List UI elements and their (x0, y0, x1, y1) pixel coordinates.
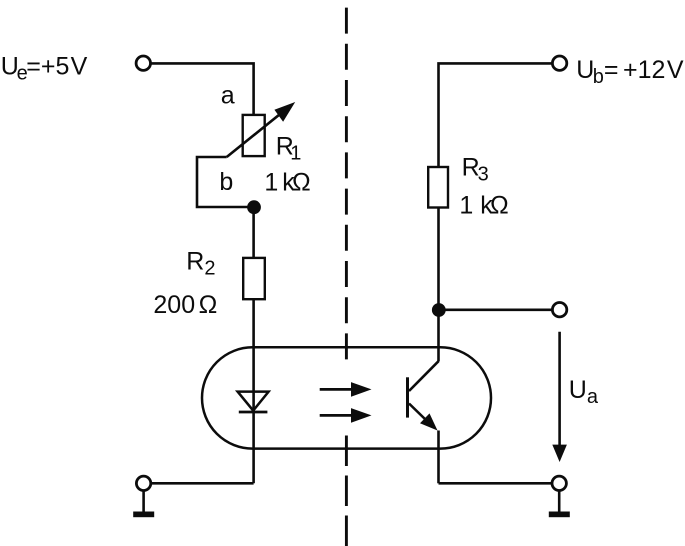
ground left (142, 490, 145, 512)
terminal Ub (552, 56, 566, 70)
wire emitter to bottom rail (437, 431, 440, 484)
svg-text:200 Ω: 200 Ω (153, 291, 217, 319)
wire Ue to R1 top (151, 63, 253, 115)
resistor R2 body (243, 258, 265, 299)
wire LED cathode to bottom rail (252, 412, 255, 483)
LED diode of optocoupler (238, 392, 269, 411)
wire junction to R2 (252, 207, 255, 258)
wire Ub to R3 (439, 63, 552, 167)
arrow Ua (558, 332, 561, 447)
bottom-right terminal (552, 476, 566, 490)
svg-text:b: b (219, 168, 233, 196)
svg-text:Ub=+12V: Ub=+12V (576, 56, 684, 88)
wire bottom-right rail (439, 482, 552, 485)
wire R3 to collector node (437, 208, 440, 362)
terminal Ue (136, 56, 150, 70)
output terminal circle (552, 303, 566, 317)
potentiometer R1 arrow (227, 113, 281, 157)
resistor R3 body (428, 167, 448, 208)
bottom-left terminal (136, 476, 150, 490)
junction node dot (collector / output) (432, 303, 446, 317)
optocoupler body (202, 347, 491, 448)
junction node dot (R1 wiper / R2) (247, 200, 261, 214)
phototransistor collector (409, 361, 439, 391)
wire R2 to LED (252, 299, 255, 412)
wire bottom-left rail (152, 482, 254, 485)
dashed isolation line (345, 8, 348, 360)
potentiometer R1 body (243, 115, 265, 156)
phototransistor emitter (409, 404, 426, 421)
wiper loop wire (b) (197, 157, 254, 207)
light coupling arrow lower (320, 414, 353, 417)
svg-text:1 kΩ: 1 kΩ (459, 192, 508, 220)
light coupling arrow upper (320, 388, 353, 391)
svg-text:a: a (221, 81, 235, 109)
svg-text:1 kΩ: 1 kΩ (264, 168, 310, 196)
ground right (558, 490, 561, 512)
svg-text:Ue=+5V: Ue=+5V (1, 52, 88, 84)
wire node to output terminal (439, 308, 552, 311)
phototransistor base bar (406, 377, 409, 417)
